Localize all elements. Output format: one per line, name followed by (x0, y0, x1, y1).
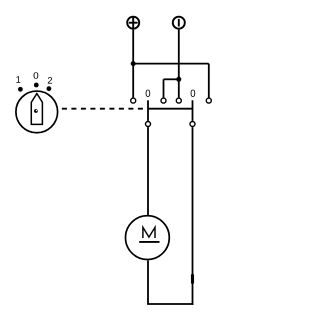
label 0 (left pole) (146, 90, 151, 97)
terminal | (line supply) (173, 17, 185, 29)
wire bracket left down (163, 79, 165, 97)
label 0 (right pole) (191, 90, 196, 97)
label 1 (16, 76, 20, 83)
mechanical linkage dashed line (62, 108, 147, 110)
wire right pole thick joint patch (191, 274, 194, 283)
wire motor bottom down (147, 260, 149, 304)
label 2 (48, 77, 52, 84)
pole terminal right (190, 122, 195, 127)
junction dot A (131, 61, 136, 66)
wire left pole to motor (147, 127, 149, 215)
fixed contact terminal a (131, 98, 136, 103)
moving contact left tick (147, 100, 149, 121)
moving contact coupling bar (148, 108, 193, 110)
terminal + (positive supply) (127, 17, 139, 29)
fixed contact terminal b (161, 98, 166, 103)
junction dot B (176, 77, 181, 82)
wire bottom horizontal (147, 303, 193, 305)
position marker dot 2 (47, 86, 52, 91)
label 0 (rotary) (34, 72, 39, 79)
rotary switch S1 knob hub dot (34, 109, 38, 113)
wire from + terminal down (132, 30, 134, 98)
position marker dot 0 (34, 83, 39, 88)
wire right branch down (208, 64, 210, 98)
rotary switch S1 knob pointer (31, 94, 42, 125)
motor M1 letter (143, 227, 155, 238)
wire from | terminal down (178, 30, 180, 98)
motor M1 underline (139, 241, 159, 243)
moving contact right tick (192, 100, 194, 121)
wire horizontal bus (133, 63, 209, 65)
position marker dot 1 (18, 87, 23, 92)
fixed contact terminal c (176, 98, 181, 103)
pole terminal left (146, 122, 151, 127)
motor M1 body (125, 216, 169, 260)
wire right pole down (192, 127, 194, 305)
fixed contact terminal d (206, 98, 211, 103)
wire bracket horizontal (164, 78, 179, 80)
rotary cam switch S1 body (16, 91, 58, 133)
